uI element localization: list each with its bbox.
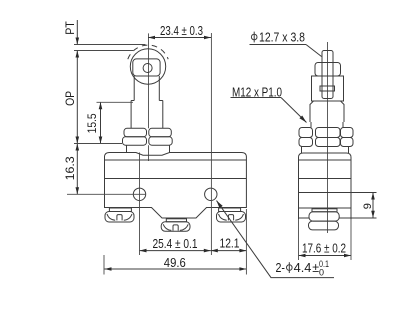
- plunger upper shaft: [131, 76, 163, 101]
- hex nut row 1: [299, 128, 353, 138]
- svg-text:15.5: 15.5: [85, 113, 99, 133]
- right terminal screw: [217, 208, 246, 222]
- roller free-position line A: [74, 44, 146, 46]
- svg-text:PT: PT: [65, 21, 77, 35]
- dimension 9: [362, 193, 375, 218]
- roller holder: [133, 59, 160, 76]
- side fork mid block: [312, 76, 344, 101]
- label 2-dia4.4: [217, 201, 335, 278]
- side neck: [302, 147, 349, 154]
- dashed arc (roller free position): [128, 45, 168, 59]
- roller pressed-position line B: [74, 50, 133, 52]
- side body inner top line: [299, 159, 352, 161]
- switch body outline (front view): [105, 153, 247, 219]
- label M12 x P1.0: [231, 84, 307, 122]
- side threaded bushing: [311, 122, 343, 128]
- dimension 15.5: [85, 102, 133, 143]
- collar row 2: [123, 137, 173, 145]
- svg-text:12.7 x 3.8: 12.7 x 3.8: [259, 30, 305, 44]
- dimension 12.1: [211, 237, 247, 253]
- side body 9-ref line: [299, 192, 377, 194]
- op reference line: [74, 143, 122, 145]
- right mounting hole: [205, 188, 217, 200]
- side roller axle: [320, 86, 335, 91]
- side body band line: [299, 178, 352, 180]
- side flange bottom right / 9-ext: [339, 217, 377, 219]
- plunger lower shaft: [131, 101, 163, 129]
- side terminal screw head 2: [309, 221, 339, 230]
- side roller: [322, 51, 333, 99]
- svg-text:OP: OP: [63, 91, 77, 106]
- plunger base: [127, 145, 170, 152]
- roller axle circle: [143, 64, 152, 73]
- svg-text:4.4: 4.4: [294, 261, 312, 275]
- side terminal screw head 1: [309, 212, 339, 221]
- dimension OP: [63, 51, 79, 144]
- center terminal screw: [161, 219, 190, 232]
- svg-text:23.4 ± 0.3: 23.4 ± 0.3: [160, 24, 203, 38]
- side fork top block: [315, 63, 341, 77]
- dimension 17.6: [299, 219, 352, 260]
- svg-text:2-: 2-: [276, 261, 286, 275]
- side terminal screw plate: [312, 209, 337, 212]
- left terminal screw: [105, 208, 134, 222]
- side flange bottom left: [299, 217, 310, 219]
- body band line: [105, 178, 247, 180]
- dimension 16.3: [63, 144, 79, 195]
- collar row 1: [124, 128, 171, 137]
- svg-text:49.6: 49.6: [164, 256, 186, 270]
- side body outline: [299, 153, 352, 219]
- left hole vertical centerline: [139, 153, 141, 256]
- dimension PT: [65, 20, 79, 45]
- side body bottom edge: [299, 207, 352, 209]
- dimension 49.6: [104, 209, 246, 275]
- label dia 12.7 x 3.8: [250, 30, 322, 56]
- svg-text:17.6 ± 0.2: 17.6 ± 0.2: [302, 242, 346, 256]
- right hole vertical extension: [210, 33, 212, 255]
- side view centerline: [327, 42, 329, 233]
- side plunger block: [310, 101, 344, 122]
- svg-text:0: 0: [319, 267, 324, 277]
- hex nut row 2: [299, 138, 353, 147]
- svg-text:9: 9: [362, 203, 374, 209]
- left mounting hole: [133, 188, 145, 200]
- svg-text:25.4 ± 0.1: 25.4 ± 0.1: [153, 237, 198, 251]
- front view centerline: [148, 33, 150, 161]
- dimension 25.4: [140, 237, 211, 252]
- dimension 23.4: [148, 24, 211, 39]
- hole horizontal centerline: [67, 193, 146, 195]
- svg-text:16.3: 16.3: [63, 156, 77, 180]
- svg-text:12.1: 12.1: [220, 237, 240, 251]
- body inner top line: [105, 159, 247, 161]
- roller circle: [130, 49, 165, 84]
